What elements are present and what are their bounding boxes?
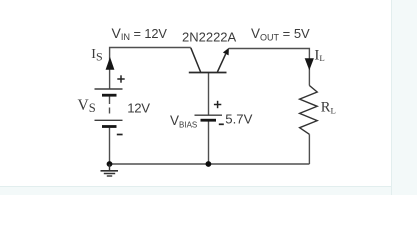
current arrow Is (up) [106,57,115,70]
transistor Q1 2N2222A [189,48,229,73]
battery VBIAS [195,115,223,120]
junction dot base [206,161,212,167]
svg-text:2N2222A: 2N2222A [182,30,237,45]
wire: base lead upper [208,73,210,115]
battery Vs [95,89,123,127]
svg-text:5.7V: 5.7V [225,112,252,127]
wire: top-right rail from emitter to RL branch [229,49,310,86]
current arrow IL (down) [305,58,314,70]
minus sign Vs [117,134,123,136]
svg-text:VIN = 12V: VIN = 12V [112,25,168,42]
wire: top-left rail from Vs branch to collector [110,48,191,90]
junction dot left [107,161,113,167]
svg-text:12V: 12V [127,100,150,115]
wire: base lead lower to bottom rail [208,121,210,164]
wire: bottom rail [110,163,310,165]
ground [101,164,119,176]
resistor RL [300,86,318,135]
minus sign VBIAS [219,123,224,125]
plus sign VBIAS [214,101,221,108]
wire: Vs branch lower lead to bottom rail [109,128,111,164]
svg-text:IS: IS [91,47,102,64]
svg-text:VOUT = 5V: VOUT = 5V [251,26,310,42]
wire: RL branch lower lead [308,134,310,164]
plus sign Vs [117,75,124,82]
